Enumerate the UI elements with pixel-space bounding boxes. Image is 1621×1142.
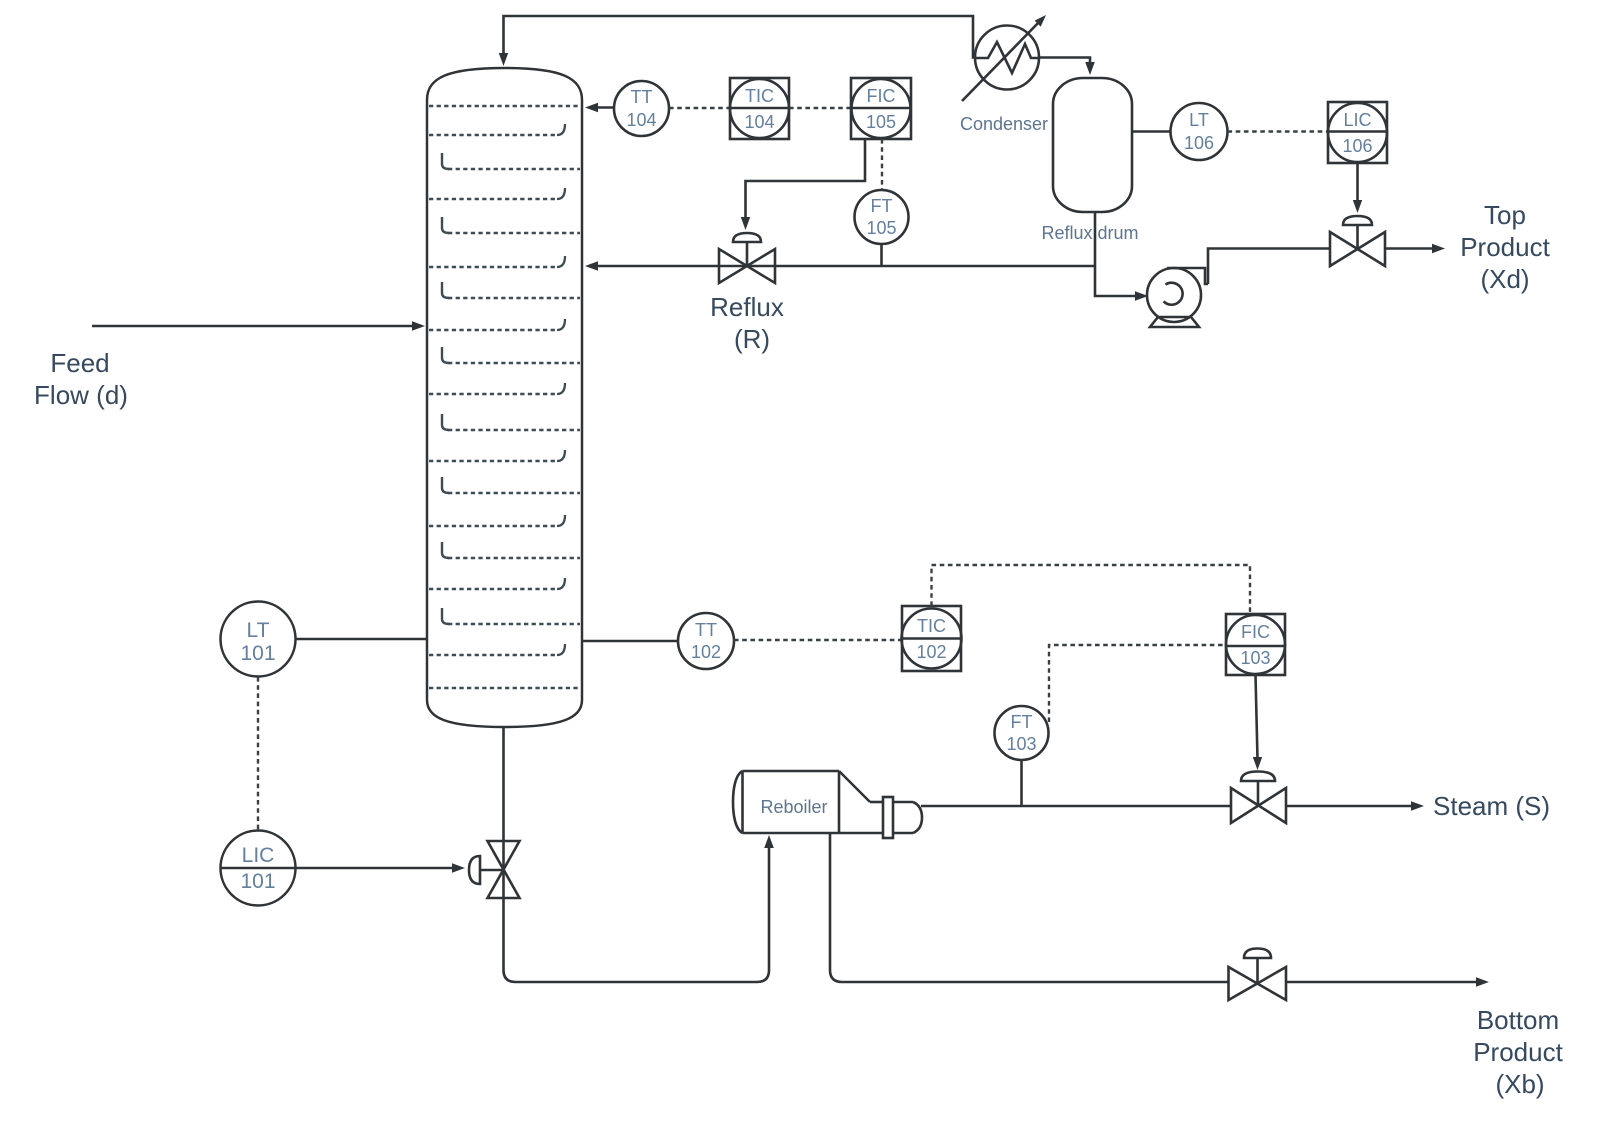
- svg-text:Top: Top: [1484, 200, 1526, 230]
- pipe: pump discharge / top product line: [1208, 249, 1330, 285]
- svg-text:Reflux drum: Reflux drum: [1041, 223, 1138, 243]
- svg-text:TIC: TIC: [745, 86, 774, 106]
- signal: TT-102 to TIC-102 (dashed): [734, 639, 902, 641]
- svg-text:Reflux: Reflux: [710, 292, 784, 322]
- signal: FT-103 to FIC-103 (dashed): [1049, 645, 1226, 722]
- tray 12 (right downcomer): [429, 450, 565, 461]
- condenser coolant diagonal: [962, 20, 1041, 101]
- signal: FIC-103 to steam valve (solid): [1256, 675, 1258, 759]
- svg-text:LIC: LIC: [1343, 110, 1371, 130]
- instrument LIC-101: [221, 831, 296, 906]
- signal: TIC-102 to FIC-103 (dashed): [932, 565, 1251, 612]
- pipe: reboiler bottoms to product valve: [830, 833, 1229, 982]
- arrow top product: [1432, 244, 1445, 253]
- pipe: condenser outlet to reflux drum: [1039, 58, 1090, 63]
- signal: TT-104 to TIC-104 (dashed): [669, 107, 730, 109]
- svg-text:Condenser: Condenser: [960, 114, 1048, 134]
- tray 1 (full-width): [429, 105, 580, 108]
- instrument FIC-105: [851, 78, 911, 139]
- instrument FT-103: [995, 706, 1049, 760]
- tray 15 (left downcomer): [442, 542, 580, 558]
- svg-text:102: 102: [916, 642, 946, 662]
- tray 17 (left downcomer): [442, 608, 580, 624]
- label Feed Flow (d): [34, 348, 128, 410]
- valve (bottom product): [1229, 958, 1287, 1000]
- instrument TIC-102: [902, 606, 962, 671]
- tray 18 (right downcomer): [429, 644, 565, 655]
- tray 2 (right downcomer): [429, 124, 565, 135]
- pipe: FT-103 tap to steam line: [1020, 760, 1023, 806]
- svg-text:TT: TT: [695, 620, 717, 640]
- svg-text:102: 102: [691, 642, 721, 662]
- pipe: drum bottoms line: [1095, 212, 1140, 296]
- arrow into column top: [499, 53, 508, 66]
- arrow onto steam valve: [1253, 757, 1262, 770]
- svg-text:Feed: Feed: [50, 348, 109, 378]
- signal: TIC-104 to FIC-105 (dashed): [789, 107, 851, 109]
- svg-text:TT: TT: [631, 87, 653, 107]
- svg-text:LIC: LIC: [242, 844, 275, 867]
- tray 19 (full-width): [429, 687, 580, 690]
- svg-text:FT: FT: [871, 196, 893, 216]
- arrow bottom product: [1476, 977, 1489, 987]
- svg-text:106: 106: [1184, 133, 1214, 153]
- instrument LIC-106: [1328, 102, 1387, 163]
- svg-text:101: 101: [240, 870, 275, 893]
- arrow TT-104 to column: [585, 103, 598, 112]
- svg-text:LT: LT: [1189, 110, 1209, 130]
- instrument FIC-103: [1226, 614, 1285, 675]
- arrow into pump suction: [1135, 291, 1148, 301]
- tray 3 (left downcomer): [442, 153, 580, 169]
- pipe: column level tap to LT-101: [295, 638, 427, 641]
- label Bottom Product (Xb): [1473, 1005, 1563, 1099]
- control valve (reflux): [719, 242, 775, 283]
- svg-text:(Xd): (Xd): [1480, 264, 1529, 294]
- pipe: feed line: [92, 325, 416, 328]
- instrument TT-104: [614, 81, 669, 136]
- svg-text:104: 104: [744, 112, 774, 132]
- pipe: column overhead vapour line: [504, 16, 977, 58]
- pipe: steam line from reboiler: [921, 805, 1231, 808]
- tray 4 (right downcomer): [429, 188, 565, 199]
- tray 16 (right downcomer): [429, 578, 565, 589]
- svg-text:(Xb): (Xb): [1495, 1069, 1544, 1099]
- label Top Product (Xd): [1460, 200, 1550, 294]
- instrument TT-102: [678, 613, 734, 669]
- distillation column C-101 shell: [427, 68, 582, 727]
- instrument LT-101: [221, 602, 296, 677]
- pipe: TT-104 tap: [596, 106, 614, 109]
- tray 5 (left downcomer): [442, 217, 580, 233]
- pipe: reflux line (drum to column): [592, 265, 1095, 268]
- svg-text:Reboiler: Reboiler: [760, 797, 827, 817]
- arrow coolant out: [1035, 15, 1046, 27]
- svg-text:TIC: TIC: [917, 616, 946, 636]
- pipe: drum level tap to LT-106: [1132, 130, 1170, 133]
- pipe: top product after valve: [1385, 247, 1436, 250]
- arrow into reboiler bottom: [764, 835, 774, 848]
- pump P-101: [1147, 268, 1208, 327]
- pipe: bottom product after valve: [1286, 981, 1480, 984]
- svg-text:103: 103: [1006, 734, 1036, 754]
- valve actuator dome (steam): [1241, 772, 1275, 782]
- svg-text:104: 104: [626, 110, 656, 130]
- signal: LT-101 to LIC-101 (dashed): [257, 677, 259, 830]
- svg-text:101: 101: [240, 642, 275, 665]
- tray 10 (right downcomer): [429, 383, 565, 394]
- instrument FT-105: [855, 190, 909, 244]
- svg-text:Product: Product: [1460, 232, 1550, 262]
- label Reflux (R): [710, 292, 784, 354]
- pipe: FT-105 tap to reflux line: [880, 244, 883, 266]
- valve actuator dome (column bottoms, side): [469, 856, 480, 884]
- control valve (top product): [1330, 225, 1385, 266]
- svg-text:103: 103: [1240, 648, 1270, 668]
- valve actuator dome (reflux): [733, 233, 761, 242]
- tray 13 (left downcomer): [442, 477, 580, 493]
- arrow onto bottoms valve actuator: [452, 863, 465, 873]
- signal: LIC-101 to bottoms valve (solid): [296, 867, 457, 870]
- arrow steam out: [1411, 801, 1424, 811]
- tray 14 (right downcomer): [429, 515, 565, 526]
- condenser E-101 (heat exchanger): [975, 26, 1039, 90]
- tray 11 (left downcomer): [442, 414, 580, 430]
- instrument LT-106: [1171, 103, 1228, 160]
- signal: FIC-105 to reflux valve (solid): [746, 139, 866, 219]
- arrow into reflux drum: [1085, 62, 1095, 75]
- svg-text:LT: LT: [247, 619, 270, 642]
- svg-text:Bottom: Bottom: [1477, 1005, 1559, 1035]
- control valve (steam): [1231, 781, 1286, 823]
- svg-text:Product: Product: [1473, 1037, 1563, 1067]
- arrow feed into column: [412, 321, 425, 331]
- valve hand dome (bottom product): [1244, 949, 1271, 959]
- reflux drum V-101: [1053, 78, 1132, 212]
- control valve (column bottoms, vertical): [480, 841, 520, 898]
- arrow onto top product valve: [1353, 200, 1362, 213]
- signal: LT-106 to LIC-106 (dashed): [1228, 130, 1329, 132]
- pipe: column temperature tap to TT-102: [582, 640, 678, 643]
- pipe: steam after valve: [1286, 805, 1415, 808]
- svg-text:(R): (R): [734, 324, 770, 354]
- svg-text:FT: FT: [1011, 712, 1033, 732]
- tray 9 (left downcomer): [442, 347, 580, 363]
- valve actuator dome (top product): [1343, 216, 1372, 225]
- svg-text:FIC: FIC: [1241, 622, 1270, 642]
- svg-text:Steam (S): Steam (S): [1433, 791, 1550, 821]
- svg-text:FIC: FIC: [867, 86, 896, 106]
- pipe: column bottoms down through valve to reboiler: [504, 727, 770, 982]
- arrow reflux into column: [585, 261, 598, 271]
- svg-text:Flow (d): Flow (d): [34, 380, 128, 410]
- signal: LIC-106 to valve FV (solid): [1356, 163, 1359, 202]
- instrument TIC-104: [730, 78, 789, 139]
- signal: FIC-105 to FT-105 (dashed): [881, 139, 883, 190]
- tray 6 (right downcomer): [429, 256, 565, 267]
- reboiler E-102: [733, 771, 922, 838]
- svg-text:106: 106: [1342, 136, 1372, 156]
- svg-text:105: 105: [866, 218, 896, 238]
- svg-text:105: 105: [866, 112, 896, 132]
- tray 8 (right downcomer): [429, 319, 565, 330]
- arrow onto reflux valve: [741, 217, 750, 230]
- tray 7 (left downcomer): [442, 282, 580, 298]
